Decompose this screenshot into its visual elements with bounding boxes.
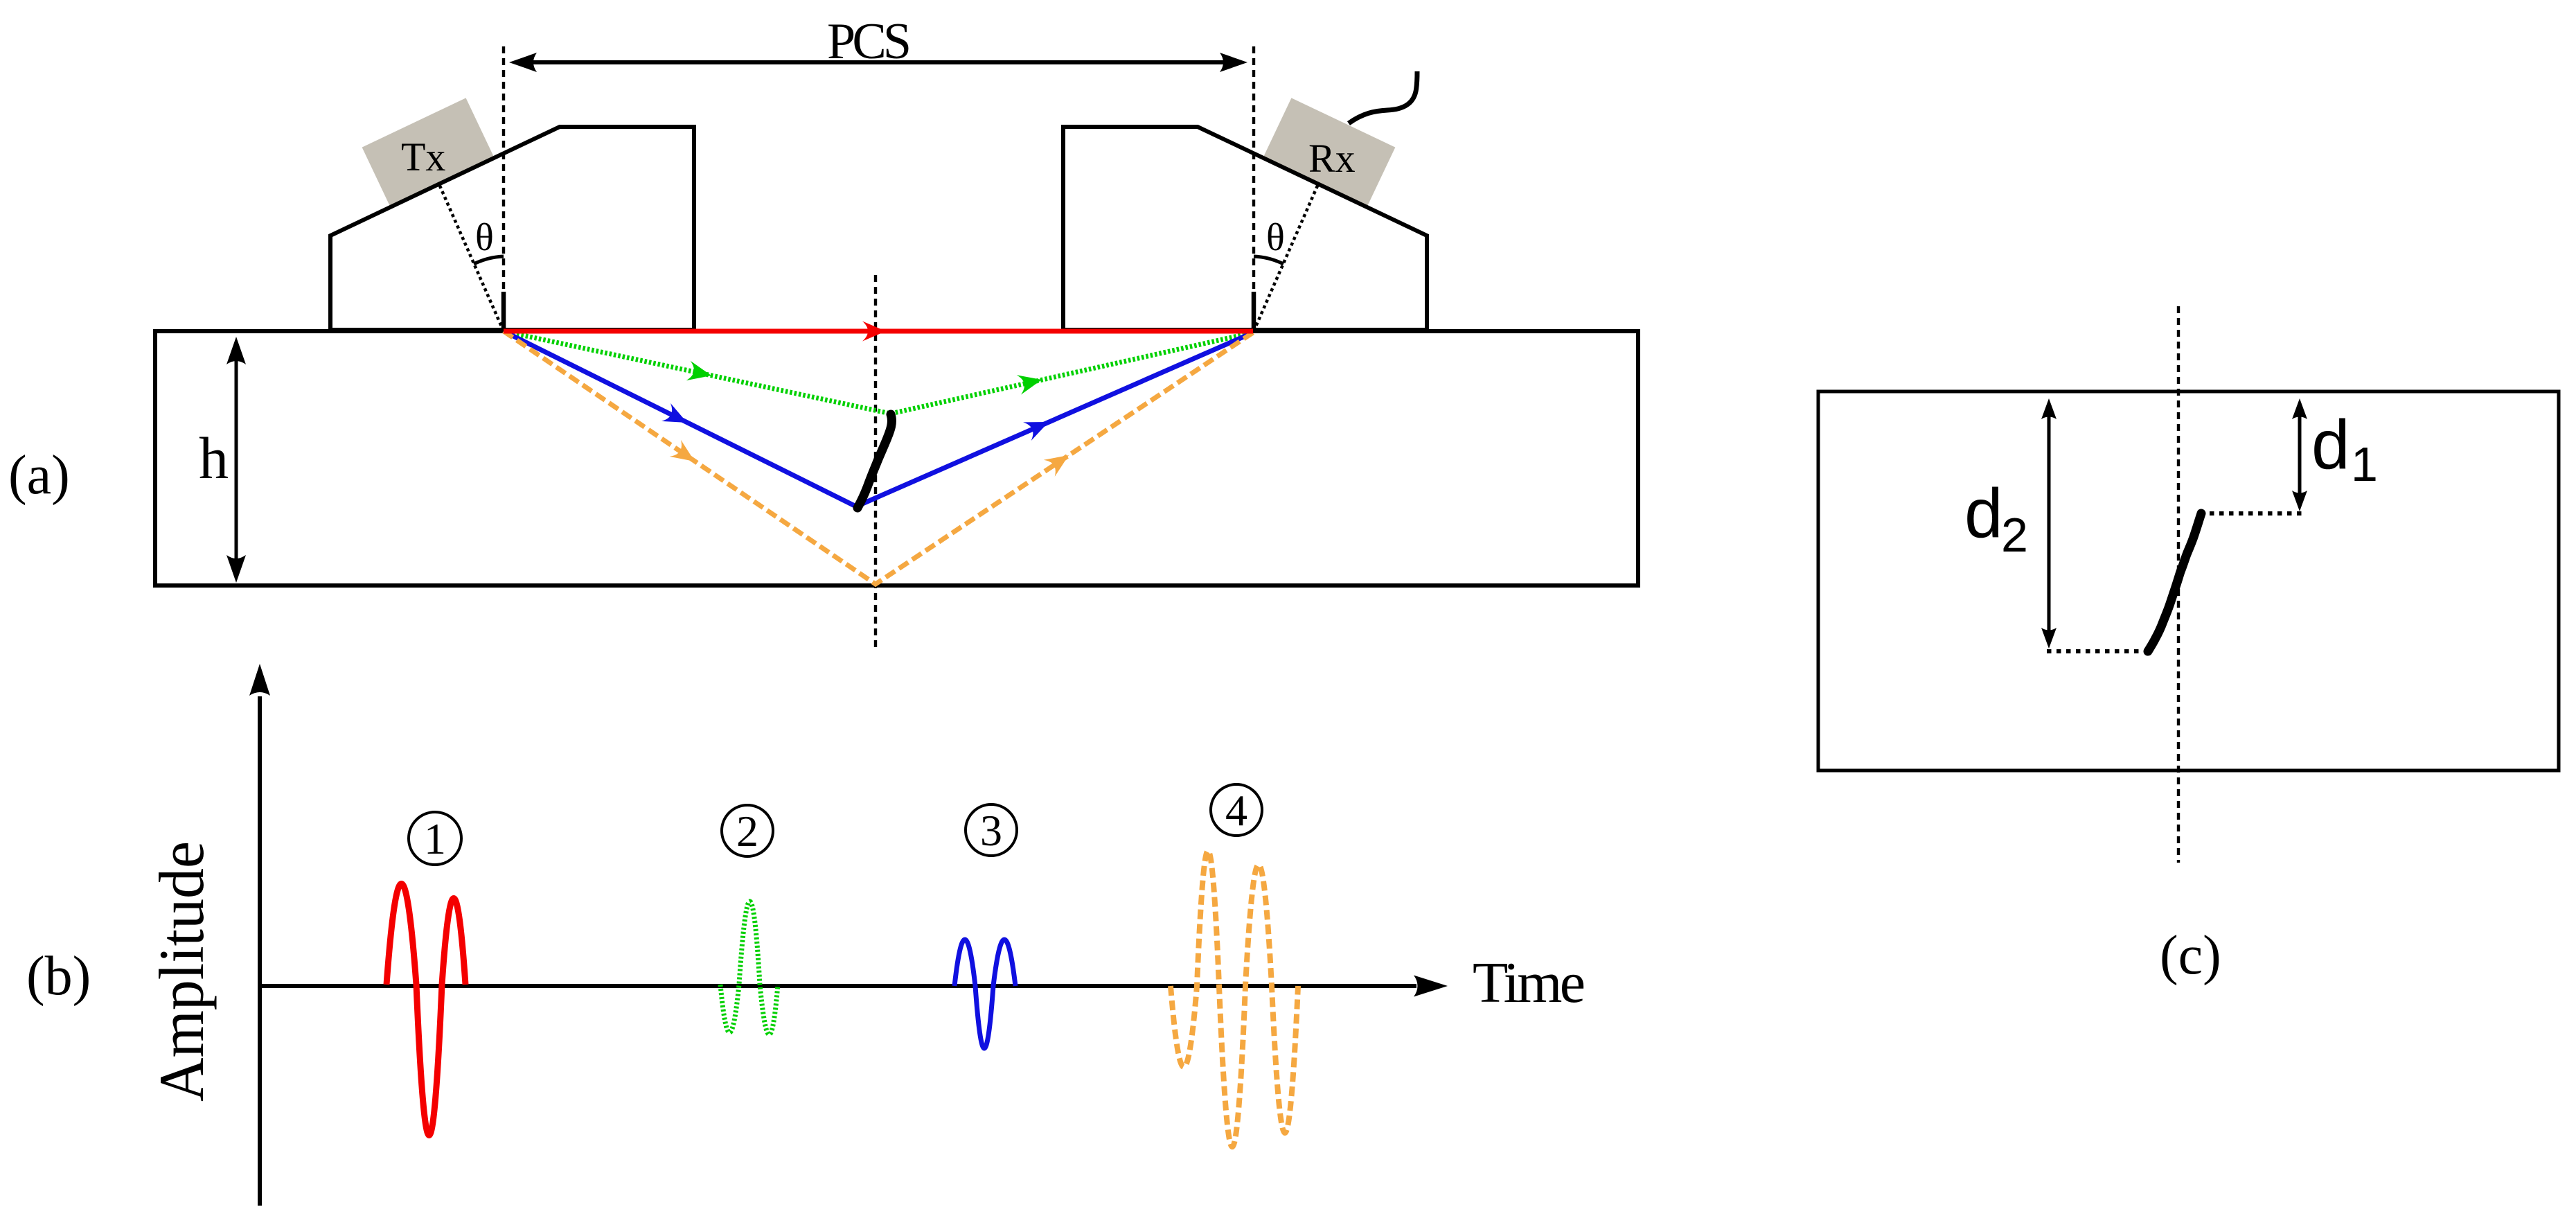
- h dimension arrow: [235, 344, 238, 576]
- green tip-diffraction ray: [504, 331, 1253, 414]
- svg-text:θ: θ: [475, 216, 494, 259]
- svg-text:(a): (a): [8, 445, 70, 506]
- svg-text:1: 1: [2351, 437, 2378, 491]
- circled 4: [1211, 784, 1262, 836]
- Tx beam axis dotted: [439, 184, 504, 331]
- panel c block: [1818, 391, 2559, 770]
- green arrow left: [686, 361, 713, 385]
- wave 1 red: [387, 884, 465, 1136]
- svg-text:Rx: Rx: [1308, 136, 1356, 181]
- svg-text:4: 4: [1225, 786, 1247, 835]
- svg-text:2: 2: [736, 807, 758, 856]
- dotted line crack bottom: [2047, 649, 2153, 653]
- theta arc left: [474, 256, 504, 264]
- svg-text:d: d: [2311, 406, 2350, 484]
- orange backwall ray: [504, 331, 1253, 584]
- wave 2 green: [720, 901, 778, 1034]
- svg-text:(b): (b): [26, 946, 91, 1007]
- specimen block: [155, 331, 1638, 585]
- blue arrow left: [661, 403, 691, 432]
- svg-text:d: d: [1964, 475, 2003, 552]
- crack in block: [858, 414, 891, 508]
- svg-text:Amplitude: Amplitude: [146, 841, 217, 1102]
- green arrow right: [1017, 370, 1045, 395]
- time axis: [260, 984, 1416, 988]
- orange arrow right: [1044, 447, 1074, 477]
- svg-text:Time: Time: [1473, 951, 1585, 1015]
- red arrow: [862, 321, 886, 342]
- svg-text:(c): (c): [2160, 925, 2221, 986]
- PCS arrow: [516, 60, 1241, 64]
- amplitude axis: [258, 696, 262, 1206]
- blue bottom-diffraction ray: [504, 331, 1253, 506]
- svg-text:1: 1: [424, 814, 446, 863]
- center dashed line: [874, 275, 877, 647]
- Rx beam axis dotted: [1254, 184, 1318, 331]
- Tx transducer: [362, 98, 494, 205]
- Tx exit tick: [501, 292, 506, 331]
- circled 2: [722, 805, 773, 856]
- Rx transducer: [1264, 98, 1396, 205]
- d2 arrow: [2048, 406, 2051, 642]
- blue arrow right: [1023, 413, 1053, 441]
- orange arrow left: [670, 440, 700, 470]
- Rx cable: [1349, 71, 1417, 123]
- svg-text:2: 2: [2001, 508, 2028, 562]
- Rx exit tick: [1252, 292, 1256, 331]
- dotted line crack top: [2210, 511, 2303, 516]
- svg-text:θ: θ: [1266, 216, 1285, 259]
- panel c dashed line: [2177, 306, 2180, 863]
- circled 1: [409, 812, 461, 865]
- theta arc right: [1254, 256, 1283, 264]
- right exit dashed line: [1252, 46, 1255, 333]
- Rx wedge: [1063, 127, 1427, 330]
- svg-text:PCS: PCS: [827, 13, 912, 70]
- d1 arrow: [2298, 406, 2302, 504]
- circled 3: [966, 804, 1017, 856]
- svg-text:Tx: Tx: [401, 134, 445, 179]
- red lateral wave ray: [504, 329, 1253, 334]
- Tx wedge: [330, 127, 694, 330]
- wave 4 orange: [1171, 851, 1298, 1147]
- svg-text:h: h: [199, 425, 229, 491]
- wave 3 blue: [954, 940, 1015, 1048]
- left exit dashed line: [502, 46, 505, 331]
- panel c crack: [2148, 513, 2201, 651]
- svg-text:3: 3: [980, 806, 1002, 855]
